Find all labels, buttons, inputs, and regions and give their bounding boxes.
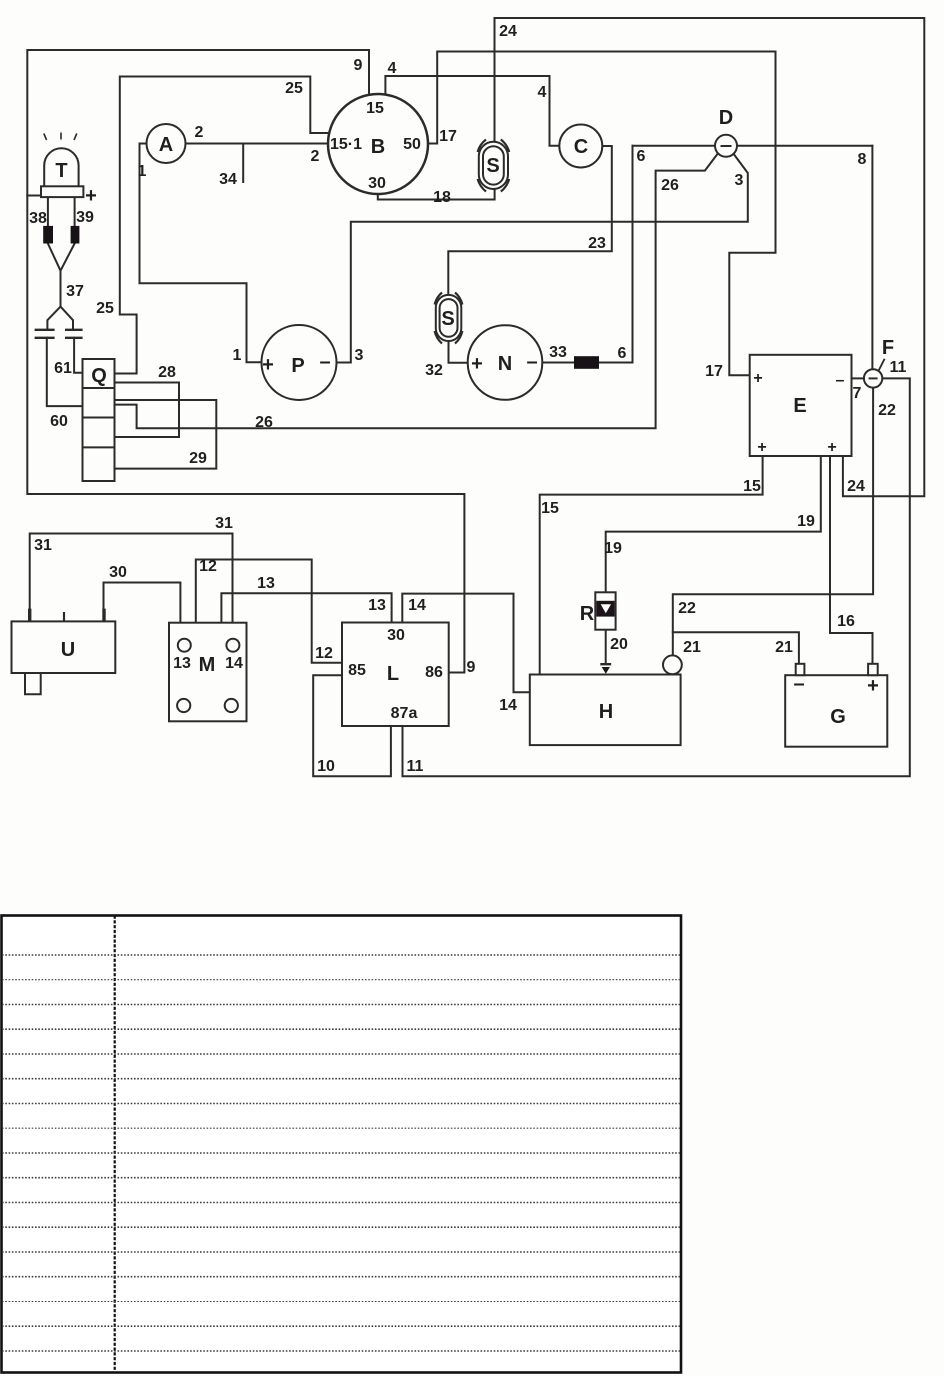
gauge A <box>147 124 186 163</box>
svg-text:15·1: 15·1 <box>330 136 362 153</box>
svg-text:50: 50 <box>403 136 421 153</box>
legend row line 8 <box>2 1127 680 1129</box>
legend row line 14 <box>2 1276 680 1278</box>
svg-text:86: 86 <box>425 664 443 681</box>
coil S2 outer <box>436 295 462 341</box>
svg-text:S: S <box>486 155 499 177</box>
wire D line left: to D circle <box>633 145 716 147</box>
wire 11: F right, down right side, bottom border to L 87a pin <box>403 378 910 776</box>
svg-text:2: 2 <box>311 148 320 165</box>
wire 61: capacitor right to Q <box>74 338 82 373</box>
wire 28 loop: Q cell1 to cell3 <box>115 383 180 438</box>
fuse 39 body <box>71 226 80 244</box>
wire 2: A to B <box>186 143 329 145</box>
wire 1: A to P + <box>140 144 262 363</box>
svg-text:34: 34 <box>219 171 237 188</box>
svg-text:6: 6 <box>637 148 646 165</box>
legend row line 11 <box>2 1202 680 1204</box>
svg-text:R: R <box>580 603 595 625</box>
svg-text:14: 14 <box>499 697 517 714</box>
svg-text:M: M <box>199 654 216 676</box>
wire 33: N - to fuse <box>542 362 574 364</box>
battery G plus post <box>868 664 878 675</box>
legend row line 2 <box>2 979 680 981</box>
horn N <box>468 325 543 400</box>
svg-text:8: 8 <box>858 151 867 168</box>
svg-text:1: 1 <box>138 163 147 180</box>
coil S2 brackets <box>435 293 463 344</box>
svg-text:+: + <box>753 370 762 387</box>
gauge C <box>559 125 602 168</box>
svg-text:21: 21 <box>683 639 701 656</box>
svg-text:3: 3 <box>355 347 364 364</box>
legend row line 3 <box>2 1004 680 1006</box>
svg-text:4: 4 <box>538 84 547 101</box>
svg-text:26: 26 <box>661 177 679 194</box>
svg-text:+: + <box>85 185 97 207</box>
svg-text:1: 1 <box>233 347 242 364</box>
svg-text:H: H <box>599 701 613 723</box>
svg-text:B: B <box>371 136 385 158</box>
wire 29 loop: Q cell2 to cell4 <box>115 400 217 469</box>
resistor R body <box>595 592 615 629</box>
horn P <box>262 325 337 400</box>
wire 9 / outer loop box1: B terminal 9 to top border, left border, bottom border, down to L terminal 86 <box>27 50 464 673</box>
svg-text:30: 30 <box>109 564 127 581</box>
svg-text:S: S <box>441 308 454 330</box>
wire 38 lead: T base to fuse <box>47 197 49 226</box>
svg-text:19: 19 <box>797 513 815 530</box>
coil S2 inner <box>440 299 458 337</box>
wire split to capacitors <box>47 307 73 330</box>
wire 6 horizontal: fuse to junction <box>599 362 633 364</box>
svg-text:13: 13 <box>368 597 386 614</box>
svg-text:21: 21 <box>775 639 793 656</box>
svg-text:15: 15 <box>366 100 384 117</box>
svg-text:N: N <box>498 353 512 375</box>
legend row line 17 <box>2 1350 680 1352</box>
wire 16: E bottom down to G + post <box>830 456 873 664</box>
fuse 33 body <box>574 356 599 369</box>
svg-text:F: F <box>882 337 894 359</box>
unit U bottom stub <box>25 673 41 694</box>
svg-text:13: 13 <box>173 655 191 672</box>
unit U box <box>12 621 116 673</box>
ignition switch B <box>328 94 428 194</box>
flasher M terminal 14 <box>226 639 239 652</box>
legend row line 1 <box>2 954 680 956</box>
svg-text:31: 31 <box>34 537 52 554</box>
legend row line 9 <box>2 1152 680 1154</box>
svg-text:22: 22 <box>878 402 896 419</box>
wire 3: P - terminal up and across to D terminal 3 <box>337 154 748 362</box>
svg-text:U: U <box>61 639 75 661</box>
wire 31: U left post up, across, down to M terminal 14 <box>30 534 233 639</box>
svg-text:19: 19 <box>604 540 622 557</box>
svg-text:11: 11 <box>407 758 424 775</box>
svg-text:9: 9 <box>467 659 476 676</box>
wire 22: F bottom down, across left, down to terminal circle on H <box>673 388 873 656</box>
legend row line 13 <box>2 1251 680 1253</box>
svg-text:A: A <box>159 134 173 156</box>
svg-text:85: 85 <box>348 662 366 679</box>
svg-text:–: – <box>836 372 845 389</box>
svg-text:–: – <box>319 351 330 373</box>
wire 7: E - to F <box>852 377 864 379</box>
capacitor 60 plates <box>35 330 55 338</box>
svg-text:28: 28 <box>158 364 176 381</box>
svg-text:20: 20 <box>610 636 628 653</box>
svg-text:9: 9 <box>354 57 363 74</box>
wire 26: D lower-left, across and down to bus, to Q cell 2 <box>115 154 718 429</box>
svg-text:26: 26 <box>255 414 273 431</box>
legend row line 15 <box>2 1301 680 1303</box>
wire 32: S2 bottom to N + <box>449 341 468 363</box>
svg-text:4: 4 <box>388 60 397 77</box>
legend row line 5 <box>2 1053 680 1055</box>
svg-text:D: D <box>719 107 733 129</box>
wire 18: B terminal 30 to S1 bottom <box>378 189 495 199</box>
svg-text:32: 32 <box>425 362 443 379</box>
svg-text:30: 30 <box>368 175 386 192</box>
svg-text:–: – <box>526 351 537 373</box>
wire 25: B terminal 15/1 to Q top cell <box>115 77 330 374</box>
svg-text:+: + <box>471 353 483 375</box>
svg-text:+: + <box>827 439 836 456</box>
wire 6 vertical: junction up to D line <box>632 146 634 363</box>
svg-text:L: L <box>387 663 399 685</box>
flasher M lower hole left <box>177 699 190 712</box>
labels, text-anchor middle <box>29 23 906 775</box>
svg-text:22: 22 <box>678 600 696 617</box>
svg-text:6: 6 <box>618 345 627 362</box>
svg-text:30: 30 <box>387 627 405 644</box>
wire 17: B terminal 50 right, up, along top, down right side to E + terminal <box>428 52 776 376</box>
node F pointer <box>878 359 884 371</box>
svg-text:13: 13 <box>257 575 275 592</box>
svg-text:T: T <box>55 160 67 182</box>
wire 14: L top pin up across down to H left side <box>402 594 530 693</box>
svg-text:+: + <box>867 675 879 697</box>
wire 12: M stub across down to L 85 <box>196 560 342 663</box>
lamp T rays <box>44 133 77 141</box>
legend row line 16 <box>2 1325 680 1327</box>
legend row line 7 <box>2 1103 680 1105</box>
wire 21: junction to G - post <box>673 632 799 664</box>
svg-text:7: 7 <box>853 385 862 402</box>
wire 13: M terminal 14 up across down to L top pin 13 <box>221 593 391 640</box>
wire 20: R bottom to arrow above H <box>605 630 607 664</box>
svg-text:18: 18 <box>433 189 451 206</box>
svg-text:10: 10 <box>317 758 335 775</box>
svg-text:C: C <box>574 136 588 158</box>
resistor R triangle <box>601 604 611 613</box>
legend row line 12 <box>2 1226 680 1228</box>
wire 8: down to F top <box>871 146 873 369</box>
svg-text:33: 33 <box>549 344 567 361</box>
coil S1 inner <box>483 146 504 184</box>
resistor R dark band <box>596 601 614 617</box>
fuse 38 body <box>43 226 53 244</box>
svg-text:17: 17 <box>439 128 457 145</box>
legend table frame <box>2 916 682 1373</box>
battery G box <box>785 675 887 747</box>
svg-text:12: 12 <box>199 558 217 575</box>
unit U top middle tick <box>63 612 65 621</box>
terminal circle 21 on H <box>663 655 682 674</box>
svg-text:11: 11 <box>890 359 907 376</box>
unit U top posts <box>30 609 104 622</box>
wire 60: capacitor left to Q <box>47 338 83 406</box>
wire 30: U right post up, across, down to M terminal 13 <box>104 583 181 643</box>
svg-text:24: 24 <box>847 478 865 495</box>
wire 39 lead: T base to fuse <box>74 197 76 226</box>
wire 20 arrow tick <box>600 663 611 665</box>
svg-text:60: 60 <box>50 413 68 430</box>
svg-text:15: 15 <box>743 478 761 495</box>
lamp T dome <box>44 148 78 186</box>
wire 34 stub <box>242 144 244 183</box>
svg-text:14: 14 <box>225 655 243 672</box>
legend table column divider <box>114 916 116 1373</box>
svg-text:61: 61 <box>54 360 72 377</box>
horn H box <box>530 675 681 746</box>
relay L box <box>342 623 449 727</box>
svg-text:E: E <box>793 395 806 417</box>
connector block Q <box>83 359 115 481</box>
svg-text:14: 14 <box>408 597 426 614</box>
node D minus <box>721 145 732 147</box>
coil S1 brackets <box>478 140 510 192</box>
svg-text:38: 38 <box>29 210 47 227</box>
flasher M lower hole right <box>225 699 238 712</box>
svg-text:15: 15 <box>541 500 559 517</box>
svg-text:39: 39 <box>76 209 94 226</box>
wire D line right: D circle to corner 8 <box>737 145 872 147</box>
svg-text:G: G <box>830 706 846 728</box>
svg-text:31: 31 <box>215 515 233 532</box>
svg-text:+: + <box>757 439 766 456</box>
svg-text:29: 29 <box>189 450 207 467</box>
svg-text:–: – <box>793 673 804 695</box>
svg-text:+: + <box>262 354 274 376</box>
svg-text:2: 2 <box>195 124 204 141</box>
node F circle <box>864 369 882 387</box>
wire 24: from coil S1 top, up, along box2 top border, down right border to E bottom + <box>495 18 925 496</box>
regulator E box <box>750 355 852 456</box>
svg-text:25: 25 <box>285 80 303 97</box>
svg-text:Q: Q <box>91 365 107 387</box>
wire 20 arrowhead <box>602 667 610 674</box>
wire 10: L 85 side loop to L 87a pin <box>313 675 391 776</box>
wire 4: B terminal top to C <box>385 76 559 146</box>
wire 23: C to S2 top <box>448 146 612 295</box>
svg-text:37: 37 <box>66 283 84 300</box>
svg-text:17: 17 <box>705 363 723 380</box>
node D circle <box>715 135 737 157</box>
legend row line 6 <box>2 1078 680 1080</box>
lamp T base <box>41 186 83 197</box>
wire stub T base to left border <box>27 195 41 197</box>
wire 15: E bottom + left and down to H top <box>540 456 763 675</box>
svg-text:24: 24 <box>499 23 517 40</box>
svg-text:P: P <box>291 355 304 377</box>
flasher M terminal 13 <box>178 639 191 652</box>
capacitor 61 plates <box>65 330 83 338</box>
wire join 37: fuses converge to node <box>48 244 75 307</box>
connector Q cell dividers <box>83 388 115 447</box>
svg-text:23: 23 <box>588 235 606 252</box>
svg-text:25: 25 <box>96 300 114 317</box>
svg-text:12: 12 <box>315 645 333 662</box>
battery G minus post <box>796 664 805 675</box>
legend row line 10 <box>2 1177 680 1179</box>
legend row line 4 <box>2 1028 680 1030</box>
flasher M box <box>169 623 247 722</box>
node F minus <box>869 377 878 379</box>
svg-text:87a: 87a <box>391 705 418 722</box>
svg-text:16: 16 <box>837 613 855 630</box>
wire 19: E bottom to resistor R top <box>606 456 821 592</box>
svg-text:3: 3 <box>735 172 744 189</box>
coil S1 outer <box>479 142 508 189</box>
